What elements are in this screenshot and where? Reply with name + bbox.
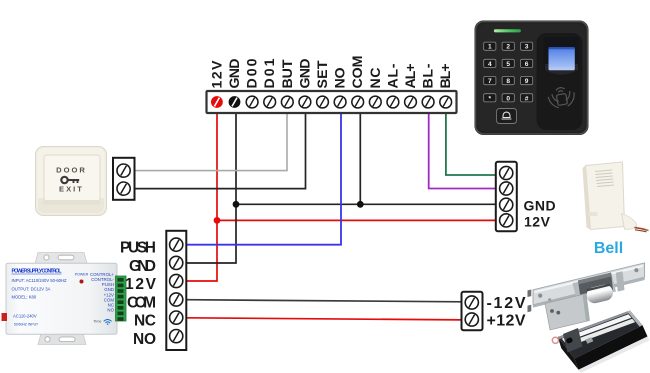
- svg-text:OUTPUT: DC12V 3A: OUTPUT: DC12V 3A: [12, 287, 51, 292]
- svg-text:BUT: BUT: [280, 59, 296, 88]
- svg-text:8: 8: [506, 78, 510, 85]
- wire black GND branch to right terminal: [236, 203, 496, 205]
- svg-text:-12V: -12V: [487, 295, 526, 312]
- PSU terminal labels column: [90, 272, 115, 313]
- svg-text:D01: D01: [262, 58, 278, 88]
- wire COM black to lock -12V: [187, 300, 462, 302]
- svg-text:1: 1: [488, 44, 492, 51]
- svg-text:POWER SUPPLY CONTROL: POWER SUPPLY CONTROL: [12, 269, 63, 275]
- svg-text:#: #: [525, 95, 529, 102]
- screw BL-: [422, 96, 434, 108]
- svg-text:EXIT: EXIT: [59, 185, 84, 194]
- U1 bell button: [497, 109, 517, 124]
- strike screw holes: [538, 294, 542, 298]
- svg-text:12V: 12V: [125, 276, 157, 293]
- svg-text:GND: GND: [129, 258, 156, 275]
- magnetic lock top face: [558, 311, 643, 359]
- svg-text:Time: Time: [93, 320, 101, 324]
- electric strike left edge marks: [528, 290, 532, 313]
- screw NO: [170, 330, 183, 343]
- wire NO blue to PSU PUSH: [187, 112, 342, 245]
- screw GND: [170, 256, 183, 269]
- labels TB3: [120, 240, 157, 348]
- screw 12V: [170, 274, 183, 287]
- screw SET: [317, 96, 329, 108]
- labels TB4 GND 12V: [524, 198, 557, 230]
- maglock clamp bracket: [563, 328, 583, 353]
- wire GND black: top strip GND down to PSU GND: [187, 112, 237, 263]
- wire red 12V branch to right terminal: [217, 219, 496, 221]
- wire GND black to exit button terminal: [135, 112, 306, 189]
- power supply PSU: [6, 253, 117, 345]
- svg-text:5: 5: [506, 61, 510, 68]
- svg-text:SET: SET: [315, 60, 331, 88]
- svg-text:NO: NO: [107, 308, 114, 313]
- svg-text:AC110-240V: AC110-240V: [13, 314, 37, 319]
- maglock rim highlight: [558, 311, 632, 340]
- maglock lamination tab: [586, 337, 594, 344]
- junction black GND node: [233, 201, 240, 208]
- U1 fingerprint window: [544, 37, 580, 75]
- screw GND (black): [229, 96, 241, 108]
- strike pocket walls: [573, 274, 617, 301]
- wire BUT gray to exit button terminal: [135, 112, 288, 171]
- bell wire: [622, 214, 649, 232]
- strike latch cylinder: [585, 283, 615, 305]
- wire NC red to lock +12V: [187, 318, 462, 320]
- maglock base plate sliver: [579, 337, 650, 373]
- svg-text:2: 2: [506, 44, 510, 51]
- maglock stripe 2: [566, 319, 636, 347]
- screw NC: [369, 96, 381, 108]
- svg-text:*: *: [489, 95, 492, 102]
- access controller U1: [475, 21, 589, 136]
- door exit button SW1: [36, 147, 107, 216]
- screw TB2-2: [117, 182, 130, 195]
- svg-text:12V: 12V: [524, 213, 551, 229]
- wire BL- purple to right terminal: [429, 112, 496, 189]
- svg-text:AL-: AL-: [385, 63, 401, 88]
- junction red 12V node: [214, 217, 221, 224]
- maglock end cap right: [627, 311, 642, 327]
- svg-text:7: 7: [488, 78, 492, 85]
- svg-text:POWER: POWER: [75, 273, 89, 277]
- svg-text:BL-: BL-: [421, 63, 437, 88]
- maglock left side face: [558, 337, 579, 370]
- svg-text:COM: COM: [127, 295, 156, 312]
- right terminal TB4: [496, 162, 517, 232]
- screw AL-: [387, 96, 399, 108]
- wire 12V red: top strip 12V down to PSU 12V: [187, 112, 218, 281]
- strike solenoid holes: [550, 309, 554, 313]
- screw GND2: [299, 96, 311, 108]
- PSU side connector red: [2, 313, 8, 321]
- screw D00: [246, 96, 258, 108]
- terminal strip TB1 (access controller): [207, 91, 457, 113]
- screw TB4-1: [500, 166, 513, 179]
- labels TB5: [487, 295, 526, 330]
- screw TB4-4: [500, 214, 513, 227]
- svg-text:GND: GND: [227, 59, 243, 89]
- svg-text:NC: NC: [368, 68, 384, 89]
- svg-text:12V: 12V: [209, 60, 225, 89]
- svg-text:AL+: AL+: [403, 64, 419, 89]
- maglock section ring: [552, 337, 558, 343]
- svg-text:MODEL: K80: MODEL: K80: [12, 295, 37, 300]
- wires-layer: [135, 112, 497, 320]
- screw COM: [170, 293, 183, 306]
- screw NC: [170, 311, 183, 324]
- U1 rfid logo: [547, 85, 576, 109]
- svg-text:COM: COM: [350, 56, 366, 89]
- svg-text:3: 3: [525, 44, 529, 51]
- strike solenoid body: [545, 294, 590, 330]
- screw D01: [264, 96, 276, 108]
- PSU green connector: [116, 276, 127, 321]
- screw TB4-3: [500, 198, 513, 211]
- key icon on exit button: [61, 177, 79, 183]
- exit button terminal TB2: [113, 158, 135, 200]
- screw TB5-1: [465, 296, 478, 309]
- screw 12V (red): [211, 96, 223, 108]
- bell B1: [583, 162, 625, 230]
- svg-text:INPUT: AC110/240V 50-60HZ: INPUT: AC110/240V 50-60HZ: [12, 278, 68, 283]
- svg-text:Bell: Bell: [594, 240, 623, 257]
- svg-text:PUSH: PUSH: [120, 240, 156, 257]
- junction black COM node: [357, 201, 364, 208]
- screw TB5-2: [465, 313, 478, 326]
- svg-text:DOOR: DOOR: [56, 166, 87, 175]
- wire BL+ green to right terminal: [446, 112, 496, 175]
- svg-text:GND: GND: [524, 198, 557, 214]
- U1 keypad keys: [484, 42, 533, 102]
- svg-text:GND: GND: [297, 59, 313, 89]
- wire COM black drop to GND bus: [359, 112, 361, 204]
- svg-text:NO: NO: [333, 68, 349, 89]
- electric strike faceplate: [533, 263, 645, 308]
- screw BL+: [440, 96, 452, 108]
- maglock front face: [575, 325, 648, 370]
- maglock stripe 1: [562, 314, 632, 342]
- svg-text:6: 6: [525, 61, 529, 68]
- U1 status LED: [494, 29, 521, 32]
- screw BUT: [281, 96, 293, 108]
- screw PUSH: [170, 238, 183, 251]
- pin labels TB1: [209, 56, 454, 89]
- svg-text:NO: NO: [133, 331, 156, 348]
- svg-text:+12V: +12V: [487, 313, 526, 330]
- screw TB4-2: [500, 182, 513, 195]
- svg-text:NC: NC: [134, 313, 156, 330]
- screw NO: [334, 96, 346, 108]
- svg-text:50/60HZ INPUT: 50/60HZ INPUT: [14, 323, 38, 327]
- strike body cavity: [578, 273, 613, 298]
- svg-text:9: 9: [525, 78, 529, 85]
- lock terminal TB5: [462, 292, 483, 331]
- svg-text:4: 4: [488, 61, 492, 68]
- PSU terminal TB3: [166, 231, 186, 350]
- PSU spec text: [12, 278, 68, 327]
- svg-text:D00: D00: [245, 58, 261, 88]
- svg-text:0: 0: [506, 95, 510, 102]
- svg-text:BL+: BL+: [438, 64, 454, 89]
- screw AL+: [405, 96, 417, 108]
- screw COM: [352, 96, 364, 108]
- screw TB2-1: [117, 164, 130, 177]
